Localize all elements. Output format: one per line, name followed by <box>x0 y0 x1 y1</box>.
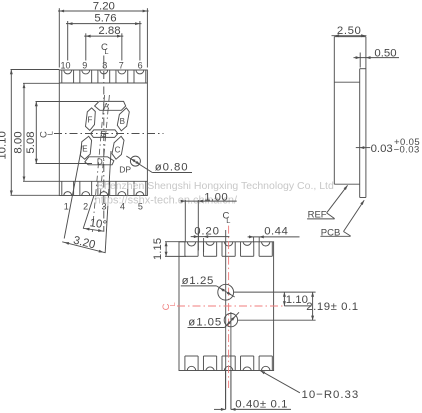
svg-text:G: G <box>100 130 106 139</box>
decimal point DP circle <box>130 156 140 166</box>
horizontal centerline <box>54 133 164 135</box>
dimension 2.88 <box>85 33 87 60</box>
segment F <box>86 108 96 130</box>
vertical centerline <box>103 56 105 232</box>
extension line 3.20 left <box>64 146 82 239</box>
svg-text:10: 10 <box>60 60 70 70</box>
dimension 7.20 <box>58 8 60 67</box>
footprint pad bottom 1 <box>184 356 186 371</box>
extension line 3.20 right <box>105 151 111 253</box>
svg-text:10°: 10° <box>89 217 108 231</box>
svg-text:2.50: 2.50 <box>337 25 362 37</box>
pin pad top 8 <box>97 70 99 83</box>
pad row inner line bottom <box>59 180 147 182</box>
svg-text:B: B <box>120 117 125 126</box>
dimension 10.10 <box>11 69 60 71</box>
svg-text:9: 9 <box>82 60 87 70</box>
dimension diameter 0.80 leader <box>126 156 152 173</box>
svg-text:1.15: 1.15 <box>152 238 164 260</box>
dimension 1.15 <box>165 241 186 243</box>
svg-text:2.19± 0.1: 2.19± 0.1 <box>306 301 358 313</box>
footprint pad bottom 5 <box>258 356 260 371</box>
svg-text:F: F <box>87 115 92 124</box>
footprint pad top 3 <box>221 242 223 256</box>
pin pad bottom 3 <box>97 181 99 195</box>
segment B <box>117 108 129 131</box>
side view body bottom edge <box>334 183 359 185</box>
svg-text:0.03: 0.03 <box>371 143 393 155</box>
svg-text:ø1.25: ø1.25 <box>182 275 214 287</box>
footprint pad top 1 <box>184 242 186 256</box>
side view body left edge <box>333 37 335 185</box>
pin pad top 9 <box>79 70 81 83</box>
centerline extension black <box>284 305 311 307</box>
dimension 1.00 <box>184 200 186 241</box>
svg-text:Shenzhen Shengshi Hongxing Tec: Shenzhen Shengshi Hongxing Technology Co… <box>97 180 334 192</box>
segment D <box>85 157 114 165</box>
svg-text:0.40± 0.1: 0.40± 0.1 <box>235 398 288 410</box>
dimension 5.76 <box>67 21 69 61</box>
dimension 0.20 <box>197 232 199 251</box>
side view body top edge <box>334 36 366 38</box>
dimension 5.08 <box>36 101 99 103</box>
svg-text:1: 1 <box>64 201 69 211</box>
svg-text:2.88: 2.88 <box>98 25 120 37</box>
footprint pad top 2 <box>202 242 204 256</box>
footprint pad bottom 3 <box>221 356 223 371</box>
svg-text:D: D <box>97 158 103 167</box>
extension line lower hole <box>238 319 316 321</box>
digit slant axis line b <box>100 95 109 196</box>
svg-text:0.44: 0.44 <box>264 226 288 238</box>
svg-text:7.20: 7.20 <box>93 0 115 12</box>
svg-text:DP: DP <box>119 164 131 174</box>
dimension 2.50 <box>332 35 367 37</box>
svg-text:5.76: 5.76 <box>94 13 116 25</box>
hole circle 1.25 <box>218 284 234 300</box>
pin pad bottom 4 <box>115 181 117 195</box>
package outline (top view) <box>59 70 147 196</box>
side view right edge <box>365 37 367 198</box>
svg-text:A: A <box>104 102 110 111</box>
dimension 8.00 <box>23 82 59 84</box>
svg-text:8.00: 8.00 <box>12 131 24 153</box>
extension line angle left <box>83 196 94 229</box>
svg-text:E: E <box>82 145 87 154</box>
dimension 0.40 <box>225 371 227 410</box>
svg-text:6: 6 <box>138 60 143 70</box>
side view body inner line <box>334 81 359 83</box>
svg-text:8: 8 <box>102 60 107 70</box>
pin pad top 6 <box>133 70 135 83</box>
svg-text:7: 7 <box>119 60 124 70</box>
pin pad top 10 <box>61 70 63 83</box>
svg-text:−0.03: −0.03 <box>394 145 420 156</box>
pin pad top 7 <box>115 70 117 83</box>
hole axis line lower <box>230 312 232 409</box>
pad row inner line top <box>59 82 147 84</box>
svg-text:ø0.80: ø0.80 <box>155 162 189 174</box>
footprint vertical centerline red <box>228 226 230 388</box>
pin pad bottom 5 <box>133 181 135 195</box>
dimension 0.44 <box>253 237 255 243</box>
svg-text:L: L <box>45 131 54 135</box>
segment A <box>95 101 126 110</box>
digit slant axis line a <box>92 95 104 232</box>
svg-text:L: L <box>168 302 177 306</box>
svg-text:2: 2 <box>83 201 88 211</box>
footprint outline <box>179 242 274 371</box>
side view pcb plate <box>359 69 361 198</box>
pin pad bottom 2 <box>79 181 81 195</box>
svg-text:1.00: 1.00 <box>204 191 228 203</box>
segment G <box>91 130 118 138</box>
hole circle 1.05 <box>224 313 237 326</box>
svg-text:1.10: 1.10 <box>286 294 308 306</box>
footprint horizontal centerline red <box>177 305 284 307</box>
svg-text:10.10: 10.10 <box>0 131 9 160</box>
dimension 1.10 <box>283 292 285 306</box>
svg-text:L: L <box>226 216 230 225</box>
segment C <box>112 136 124 159</box>
dimension angle 10 deg <box>83 228 104 231</box>
svg-text:10−R0.33: 10−R0.33 <box>302 389 360 401</box>
svg-text:0.50: 0.50 <box>374 47 396 59</box>
svg-text:C: C <box>115 145 121 154</box>
svg-text:5.08: 5.08 <box>25 131 37 153</box>
extension line upper hole <box>234 291 316 293</box>
segment E <box>80 136 91 159</box>
dimension 2.19 <box>312 292 314 320</box>
pin pad bottom 1 <box>61 181 63 195</box>
svg-text:ø1.05: ø1.05 <box>188 317 222 329</box>
dimension 0.03 with tolerance <box>356 147 371 149</box>
dimension 0.50 <box>359 53 361 68</box>
footprint pad bottom 2 <box>202 356 204 371</box>
svg-text:0.20: 0.20 <box>194 226 220 238</box>
dimension 3.20 <box>62 242 105 253</box>
hole axis line upper <box>225 230 227 409</box>
svg-text:L: L <box>104 47 108 56</box>
footprint pad top 5 <box>258 242 260 256</box>
footprint pad top 4 <box>240 242 242 256</box>
svg-text:PCB: PCB <box>321 228 341 239</box>
footprint pad bottom 4 <box>240 356 242 371</box>
